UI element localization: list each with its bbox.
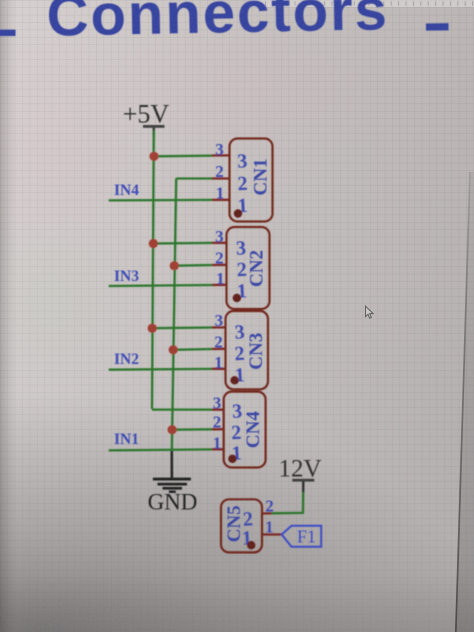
title trailing dash bbox=[426, 23, 449, 31]
CN3 pin1 marker dot bbox=[230, 376, 238, 384]
wire IN1 to CN4 pin1 bbox=[109, 449, 213, 450]
ground label GND bbox=[148, 490, 198, 515]
pin stub CN2 pin3 bbox=[212, 242, 227, 244]
junction CN2 pin2 bbox=[170, 261, 179, 270]
terminal F1 bbox=[282, 526, 322, 547]
bottom shadow band bbox=[0, 575, 474, 632]
wire CN2 pin2 branch bbox=[174, 264, 213, 267]
wire CN1 pin3 branch bbox=[154, 154, 213, 157]
wire CN3 pin3 branch bbox=[152, 326, 213, 329]
wire IN4 to CN1 pin1 bbox=[109, 199, 213, 202]
title leading dash bbox=[0, 30, 16, 36]
connector CN1 label (rotated) bbox=[251, 159, 272, 196]
wire CN3 pin2 branch bbox=[173, 348, 213, 351]
wire +5V vertical rail bbox=[152, 130, 154, 409]
mouse cursor bbox=[366, 306, 374, 318]
CN2 pin1 marker dot bbox=[233, 294, 241, 302]
pin stub CN3 pin3 bbox=[212, 326, 226, 328]
connector CN5 label (rotated) bbox=[224, 505, 245, 542]
junction CN1 pin3 bbox=[149, 152, 158, 161]
title: - Connectors - bbox=[46, 0, 389, 49]
wire CN5 pin1 to F1 bbox=[262, 533, 283, 535]
CN5 pin1 marker dot bbox=[247, 541, 255, 549]
wire CN4 pin2 branch bbox=[172, 428, 213, 431]
junction CN3 pin3 bbox=[148, 324, 157, 333]
wire IN2 to CN3 pin1 bbox=[109, 368, 213, 371]
power 12V label bbox=[278, 456, 321, 483]
CN2 outside pin numbers bbox=[215, 227, 224, 288]
power +5V label bbox=[123, 100, 170, 129]
connector CN3 body bbox=[226, 311, 269, 389]
CN5 inside pin numbers bbox=[240, 508, 254, 550]
wire CN2 pin3 branch bbox=[153, 242, 213, 245]
CN5 outside pin numbers bbox=[265, 497, 274, 537]
pin stub CN1 pin3 bbox=[212, 154, 230, 156]
power +5V bar symbol bbox=[143, 125, 165, 128]
top ruler strip bbox=[252, 0, 474, 7]
wire 12V lead (black part) bbox=[302, 481, 304, 493]
net label IN1 bbox=[114, 431, 139, 448]
CN1 pin1 marker dot bbox=[234, 209, 242, 217]
connector CN4 body bbox=[224, 392, 266, 468]
connector CN4 label (rotated) bbox=[243, 411, 264, 448]
pin stub CN3 pin2 bbox=[212, 348, 226, 351]
connector CN2 body bbox=[227, 227, 270, 309]
junction CN3 pin2 bbox=[169, 345, 178, 354]
junction CN2 pin3 bbox=[149, 239, 158, 248]
CN3 inside pin numbers bbox=[232, 321, 248, 387]
pin stub CN2 pin1 bbox=[212, 284, 227, 287]
CN1 inside pin numbers bbox=[235, 150, 250, 217]
CN1 outside pin numbers bbox=[215, 140, 224, 203]
connector CN3 label (rotated) bbox=[246, 333, 267, 370]
connector CN1 body bbox=[230, 139, 273, 222]
power +5V pin (dark) bbox=[153, 127, 155, 135]
net label IN4 bbox=[114, 182, 139, 199]
pin stub CN4 pin2 bbox=[212, 428, 225, 430]
pin stub CN1 pin1 bbox=[212, 199, 230, 201]
connector CN5 body bbox=[221, 499, 262, 552]
wire IN3 to CN2 pin1 bbox=[109, 285, 213, 286]
sheet edge line (right) bbox=[456, 172, 474, 632]
wire CN4 pin3 branch (rail bend) bbox=[152, 408, 214, 410]
pin stub CN4 pin1 bbox=[212, 448, 225, 450]
power 12V bar symbol bbox=[292, 479, 314, 482]
wire 12V to CN5 pin2 (vertical) bbox=[302, 492, 305, 512]
wire GND vertical rail bbox=[172, 178, 176, 455]
CN4 outside pin numbers bbox=[213, 394, 222, 453]
junction CN4 pin2 bbox=[168, 425, 177, 434]
CN4 pin1 marker dot bbox=[228, 455, 236, 463]
net label IN2 bbox=[114, 351, 139, 368]
ground lead bbox=[171, 451, 174, 479]
pin stub CN5 pin2 bbox=[262, 512, 272, 515]
pin stub CN4 pin3 bbox=[212, 408, 225, 410]
CN3 outside pin numbers bbox=[214, 311, 223, 372]
wire CN1 pin2 branch bbox=[176, 177, 213, 179]
pin stub CN1 pin2 bbox=[212, 177, 230, 179]
pin stub CN2 pin2 bbox=[212, 264, 227, 267]
connector CN2 label (rotated) bbox=[247, 250, 268, 287]
pin stub CN3 pin1 bbox=[212, 368, 226, 370]
ground symbol bbox=[153, 478, 191, 493]
net label IN3 bbox=[114, 268, 139, 285]
wire 12V to CN5 pin2 (horizontal) bbox=[271, 512, 304, 515]
CN4 inside pin numbers bbox=[229, 400, 245, 464]
CN2 inside pin numbers bbox=[234, 237, 249, 303]
